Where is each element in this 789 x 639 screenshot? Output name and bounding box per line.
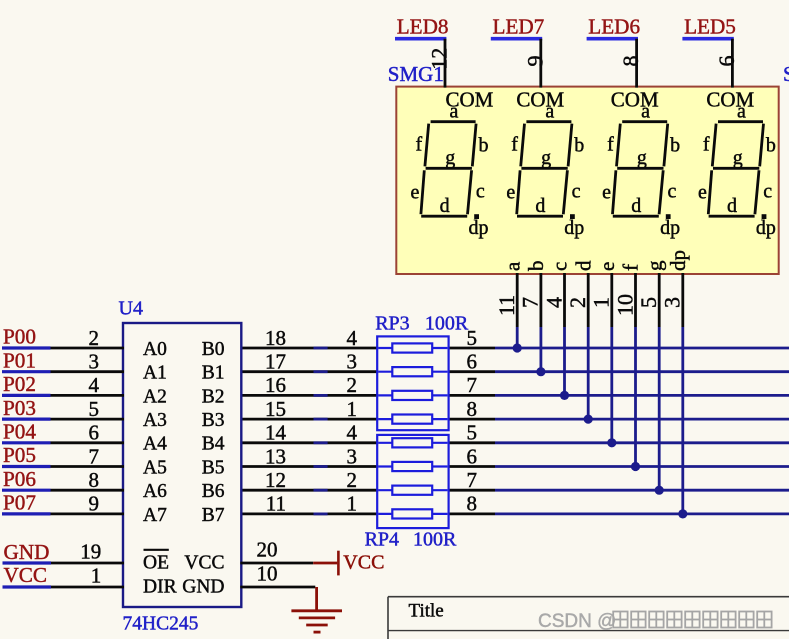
svg-text:12: 12 [427,48,452,70]
junction node c [560,391,569,400]
junction node f [631,462,640,471]
wire segment c vertical [563,327,566,395]
svg-text:P05: P05 [3,443,36,467]
wire P07 to U4 [51,513,125,516]
svg-text:b: b [479,134,489,156]
wire VCC net stub [3,585,52,588]
svg-text:d: d [727,195,737,217]
svg-text:1: 1 [347,397,358,421]
svg-text:dp: dp [660,217,680,239]
wire P02 net stub [2,394,51,397]
wire row 3 RP-to-net [448,394,495,397]
wire SMG1 pin 7 stub [540,273,543,327]
svg-text:DIR: DIR [143,577,177,598]
svg-text:A7: A7 [143,505,167,526]
svg-text:COM: COM [611,88,659,112]
junction node a [513,343,522,352]
wire segment f vertical [634,327,637,467]
svg-text:B4: B4 [202,434,225,455]
svg-text:f: f [607,133,614,155]
wire row 5 chip-to-RP [240,441,378,444]
svg-text:GND: GND [4,540,50,564]
svg-text:b: b [574,134,584,156]
wire row 7 net to right edge [495,489,789,492]
svg-text:P01: P01 [3,348,36,372]
svg-text:P03: P03 [3,396,36,420]
svg-text:c: c [667,180,676,202]
svg-text:g: g [445,147,455,169]
wire P05 net stub [2,465,51,468]
svg-text:RP3: RP3 [375,312,409,334]
svg-text:7: 7 [518,297,543,308]
svg-text:11: 11 [266,492,286,516]
wire row 8 chip-to-RP [240,513,378,516]
svg-text:d: d [571,260,595,271]
wire P02 to U4 [51,394,125,397]
junction node g [655,486,664,495]
svg-text:16: 16 [265,373,286,397]
wire P05 to U4 [51,465,125,468]
svg-text:B2: B2 [202,386,225,407]
svg-text:6: 6 [89,421,100,445]
svg-text:c: c [548,262,572,271]
resistor RP3 element 3 [378,394,447,396]
wire P04 to U4 [51,441,125,444]
wire segment g vertical [658,327,661,490]
svg-text:A2: A2 [143,386,167,407]
wire row 2 blue overlay [314,370,328,373]
svg-text:A5: A5 [143,457,167,478]
svg-text:1: 1 [347,492,358,516]
junction node dp [678,509,687,518]
wire row 4 chip-to-RP [240,418,378,421]
svg-text:P02: P02 [3,372,36,396]
svg-text:A4: A4 [143,434,167,455]
svg-text:5: 5 [467,421,478,445]
wire row 4 net to right edge [495,418,789,421]
wire P07 net stub [2,512,51,515]
svg-text:8: 8 [467,492,478,516]
resistor RP4 element 2 [378,465,447,467]
svg-text:2: 2 [347,373,358,397]
svg-text:VCC: VCC [343,552,384,574]
wire P03 net stub [2,418,51,421]
junction node e [607,438,616,447]
wire SMG1 pin 1 stub [610,273,613,327]
svg-text:3: 3 [89,350,100,374]
seven-segment digit 4 [698,100,776,239]
svg-text:f: f [619,264,643,271]
wire row 5 net to right edge [495,441,789,444]
wire SMG1 pin 3 stub [681,273,684,327]
IC U4 74HC245 body [123,323,241,607]
svg-text:CSDN @: CSDN @ [538,611,616,632]
svg-text:dp: dp [469,217,489,239]
svg-text:1: 1 [91,564,102,588]
svg-text:6: 6 [467,350,478,374]
wire LED5 net stub [682,37,733,41]
wire row 1 net to right edge [495,347,789,350]
wire SMG1 pin 9 vertical [539,39,542,88]
svg-text:17: 17 [265,350,286,374]
svg-text:g: g [642,260,666,271]
wire row 1 RP-to-net [448,347,495,350]
svg-text:2: 2 [89,326,100,350]
svg-text:a: a [641,100,650,122]
svg-text:10: 10 [257,562,278,586]
svg-text:5: 5 [89,397,100,421]
svg-text:c: c [572,180,581,202]
svg-text:U4: U4 [119,298,143,320]
wire P00 to U4 [51,347,125,350]
wire row 6 RP-to-net [448,465,495,468]
svg-text:3: 3 [660,297,685,308]
svg-text:dp: dp [564,217,584,239]
wire row 2 chip-to-RP [240,370,378,373]
svg-text:a: a [737,100,746,122]
svg-text:a: a [500,261,524,271]
svg-text:A6: A6 [143,481,167,502]
svg-text:d: d [535,195,545,217]
svg-text:4: 4 [347,421,358,445]
wire row 8 RP-to-net [448,513,495,516]
svg-text:13: 13 [265,444,286,468]
wire row 6 net to right edge [495,465,789,468]
svg-text:e: e [595,262,619,271]
wire P04 net stub [2,441,51,444]
svg-text:d: d [631,195,641,217]
svg-text:LED5: LED5 [684,14,736,38]
wire segment dp vertical [681,327,684,514]
wire P01 net stub [2,370,51,373]
resistor RP3 element 4 [378,418,447,420]
resistor pack RP4 box [377,435,448,528]
svg-text:2: 2 [347,468,358,492]
svg-text:P04: P04 [3,420,36,444]
wire U4 pin 20 to VCC [240,562,313,565]
svg-text:B6: B6 [202,481,225,502]
svg-text:20: 20 [257,538,278,562]
svg-text:LED8: LED8 [397,14,449,38]
svg-text:19: 19 [80,540,101,564]
wire row 3 chip-to-RP [240,394,378,397]
svg-text:P07: P07 [3,491,36,515]
svg-text:14: 14 [265,421,287,445]
svg-text:74HC245: 74HC245 [123,614,199,635]
svg-text:9: 9 [522,56,547,67]
svg-text:g: g [733,147,743,169]
svg-text:7: 7 [467,468,478,492]
svg-text:g: g [637,147,647,169]
wire SMG1 pin 8 vertical [635,39,638,88]
wire LED7 net stub [491,37,542,41]
svg-text:c: c [763,180,772,202]
svg-text:RP4: RP4 [365,529,399,551]
wire row 8 net to right edge [495,513,789,516]
wire P00 net stub [2,346,51,349]
svg-text:d: d [440,195,450,217]
title block frame [388,597,789,639]
seven-segment digit 2 [506,100,584,239]
svg-text:3: 3 [347,444,358,468]
wire row 4 RP-to-net [448,418,495,421]
wire SMG1 pin 5 stub [658,273,661,327]
svg-text:12: 12 [265,468,286,492]
wire row 6 chip-to-RP [240,465,378,468]
resistor pack RP3 box [377,336,448,430]
wire row 7 chip-to-RP [240,489,378,492]
svg-text:15: 15 [265,397,286,421]
wire SMG1 pin 4 stub [563,273,566,327]
wire GND net stub [3,561,52,564]
svg-text:g: g [541,147,551,169]
wire row 7 RP-to-net [448,489,495,492]
resistor RP4 element 4 [378,513,447,515]
svg-text:P00: P00 [3,325,36,349]
svg-text:A0: A0 [143,339,167,360]
svg-text:LED7: LED7 [493,14,545,38]
wire row 3 net to right edge [495,394,789,397]
wire row 4 blue overlay [314,418,328,421]
wire segment a vertical [516,327,519,348]
resistor RP3 element 2 [378,371,447,373]
svg-text:8: 8 [467,397,478,421]
svg-text:VCC: VCC [184,553,224,574]
svg-text:2: 2 [565,297,590,308]
wire row 6 blue overlay [314,465,328,468]
wire P01 to U4 [51,370,125,373]
wire row 3 blue overlay [314,394,328,397]
power symbol VCC bar [313,562,337,565]
resistor RP3 element 1 [378,347,447,349]
wire SMG1 pin 10 stub [634,273,637,327]
svg-text:dp: dp [756,217,776,239]
svg-text:A1: A1 [143,363,167,384]
ground symbol [291,587,342,632]
svg-text:a: a [545,100,554,122]
wire SMG1 pin 12 vertical [444,39,447,88]
svg-text:e: e [411,181,420,203]
wire segment e vertical [610,327,613,443]
svg-text:5: 5 [636,297,661,308]
svg-text:11: 11 [494,295,519,316]
wire LED8 net stub [395,37,446,41]
wire SMG1 pin 2 stub [587,273,590,327]
svg-text:6: 6 [467,444,478,468]
wire P06 to U4 [51,489,125,492]
svg-text:100R: 100R [425,312,469,334]
wire P06 net stub [2,489,51,492]
svg-text:B5: B5 [202,457,225,478]
svg-text:LED6: LED6 [588,14,640,38]
wire row 2 net to right edge [495,370,789,373]
svg-text:e: e [602,181,611,203]
junction node d [584,415,593,424]
svg-text:8: 8 [618,56,643,67]
wire segment b vertical [540,327,543,372]
svg-text:8: 8 [89,468,100,492]
wire row 2 RP-to-net [448,370,495,373]
svg-text:B7: B7 [202,505,225,526]
svg-text:OE: OE [143,553,169,574]
svg-text:18: 18 [265,326,286,350]
svg-text:SMG1: SMG1 [783,62,789,86]
svg-text:e: e [698,181,707,203]
wire GND to U4 [51,562,124,565]
svg-text:4: 4 [347,326,358,350]
wire VCC to U4 [51,586,124,589]
junction node b [536,367,545,376]
wire row 5 RP-to-net [448,441,495,444]
svg-text:6: 6 [714,56,739,67]
wire segment d vertical [587,327,590,419]
svg-text:B3: B3 [202,410,225,431]
svg-text:a: a [450,100,459,122]
svg-text:VCC: VCC [4,563,48,587]
wire P03 to U4 [51,418,125,421]
svg-text:b: b [670,134,680,156]
svg-text:b: b [524,261,548,272]
wire SMG1 pin 6 vertical [731,39,734,88]
wire LED6 net stub [587,37,638,41]
svg-text:1: 1 [589,297,614,308]
wire U4 pin 10 to ground [240,586,315,589]
resistor RP4 element 1 [378,442,447,444]
7-segment display SMG1 body [396,87,778,274]
wire row 7 blue overlay [314,489,328,492]
svg-text:9: 9 [89,492,100,516]
svg-text:4: 4 [541,297,566,308]
svg-text:COM: COM [706,88,754,112]
svg-text:c: c [476,180,485,202]
svg-text:GND: GND [182,577,224,598]
svg-text:f: f [415,133,422,155]
wire row 1 chip-to-RP [240,347,378,350]
wire row 8 blue overlay [314,513,328,516]
seven-segment digit 1 [411,100,489,239]
svg-text:5: 5 [467,326,478,350]
svg-text:dp: dp [666,250,690,271]
wire row 1 blue overlay [314,347,328,350]
svg-text:P06: P06 [3,467,36,491]
svg-text:4: 4 [89,373,100,397]
svg-text:COM: COM [516,88,564,112]
svg-text:b: b [766,134,776,156]
wire SMG1 pin 11 stub [516,273,519,327]
svg-text:3: 3 [347,350,358,374]
svg-text:e: e [506,181,515,203]
svg-text:A3: A3 [143,410,167,431]
svg-text:Title: Title [409,601,444,622]
svg-text:f: f [511,133,518,155]
svg-text:7: 7 [467,373,478,397]
svg-text:10: 10 [612,294,637,316]
wire row 5 blue overlay [314,441,328,444]
svg-text:B0: B0 [202,339,225,360]
svg-text:B1: B1 [202,363,225,384]
seven-segment digit 3 [602,100,680,239]
svg-text:100R: 100R [413,529,457,551]
resistor RP4 element 3 [378,489,447,491]
svg-text:f: f [703,133,710,155]
svg-text:7: 7 [89,444,100,468]
